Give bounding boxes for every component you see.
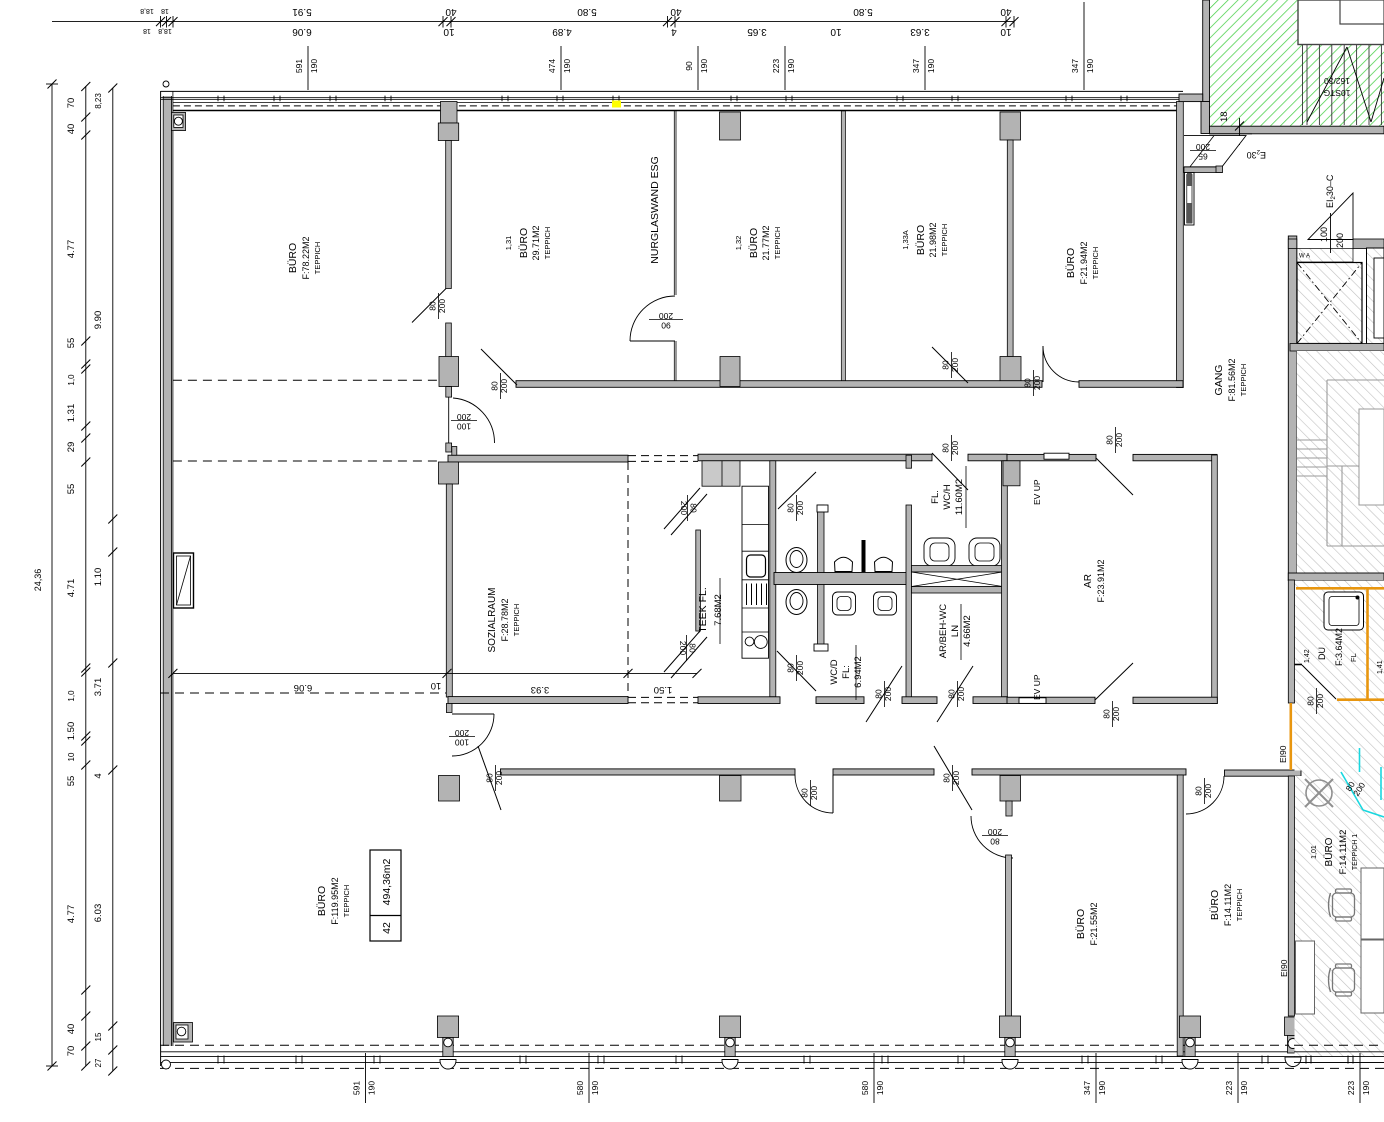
- svg-text:1,32: 1,32: [734, 236, 743, 251]
- svg-text:TEPPICH: TEPPICH: [773, 227, 782, 260]
- middle block top wall right segment: [968, 454, 1007, 461]
- sozial room door stub: [446, 704, 452, 713]
- door dim 80/200 room 21.94: [1023, 370, 1043, 396]
- svg-text:80: 80: [689, 503, 699, 513]
- svg-text:1.50: 1.50: [66, 722, 77, 741]
- dashed line corridor lower: [173, 460, 438, 462]
- svg-text:190: 190: [1097, 1081, 1107, 1095]
- sozialraum bottom wall: [448, 697, 628, 704]
- svg-text:EI90: EI90: [1278, 745, 1288, 763]
- ar door top leaf: [1096, 458, 1133, 495]
- svg-text:10: 10: [67, 752, 76, 761]
- svg-text:347: 347: [911, 59, 921, 73]
- right wall of BURO21.94: [1177, 102, 1184, 388]
- kitchen burners: [745, 636, 767, 649]
- svg-text:190: 190: [786, 59, 796, 73]
- corridor top wall segment 1: [516, 381, 1042, 388]
- du orange wall right: [1366, 588, 1369, 699]
- stair treads green: [1303, 0, 1382, 125]
- svg-text:10: 10: [431, 680, 442, 691]
- svg-text:BÜRO: BÜRO: [1209, 890, 1221, 920]
- svg-text:24,36: 24,36: [33, 569, 43, 592]
- svg-text:BÜRO: BÜRO: [915, 225, 927, 255]
- svg-text:W A: W A: [1299, 254, 1310, 260]
- svg-text:29: 29: [66, 442, 77, 453]
- svg-text:FL:: FL:: [841, 665, 852, 679]
- ev panel slot bottom: [1019, 698, 1046, 704]
- origin circle top-left: [163, 81, 169, 87]
- core top wall left: [1288, 239, 1297, 249]
- crossed-out circle symbol: [1305, 779, 1333, 807]
- svg-text:1.50: 1.50: [654, 684, 673, 695]
- svg-text:190: 190: [1361, 1081, 1371, 1095]
- svg-text:223: 223: [1224, 1081, 1234, 1095]
- label BURO 1,32: [734, 225, 782, 260]
- svg-text:80: 80: [1023, 378, 1033, 388]
- teek underline: [719, 578, 721, 644]
- fire door dim 200/65: [1190, 142, 1216, 162]
- du door dim: [1306, 688, 1326, 714]
- svg-text:15: 15: [94, 1032, 103, 1041]
- label NURGLASWAND: [649, 156, 661, 264]
- svg-text:3.93: 3.93: [531, 684, 550, 695]
- svg-text:80: 80: [688, 643, 698, 653]
- left dim chain A: [33, 80, 58, 1071]
- column C2 on top wall x730: [720, 112, 741, 140]
- bottom band overlay right: [1294, 1045, 1384, 1063]
- wc stall wall cap top: [817, 505, 828, 512]
- svg-text:TEEK FL.: TEEK FL.: [697, 587, 709, 633]
- svg-text:6.03: 6.03: [93, 904, 104, 923]
- ar east wall: [1212, 455, 1218, 704]
- svg-text:90: 90: [661, 321, 671, 331]
- svg-text:80: 80: [786, 663, 796, 673]
- label BURO 14.11 left: [1209, 884, 1244, 926]
- svg-text:190: 190: [926, 59, 936, 73]
- wc lower door dim: [786, 655, 806, 681]
- du door leaf: [1302, 665, 1336, 699]
- svg-text:4: 4: [93, 773, 104, 778]
- svg-text:9.90: 9.90: [93, 311, 104, 330]
- svg-text:5.80: 5.80: [577, 6, 597, 17]
- svg-text:190: 190: [562, 59, 572, 73]
- stair landing boxes green: [1298, 0, 1384, 45]
- sozial door column: [439, 776, 460, 802]
- column sozialraum corner: [439, 462, 459, 484]
- wc upper door leaf: [778, 472, 816, 509]
- svg-text:3.63: 3.63: [910, 26, 930, 37]
- svg-text:18: 18: [1219, 111, 1230, 122]
- door leaf corridor room 1,33A: [932, 347, 968, 383]
- urinal 1: [835, 557, 853, 571]
- bottom window dim labels: [352, 1053, 1372, 1103]
- column C4b corridor x730: [720, 357, 740, 387]
- bottom column x730: [719, 1016, 740, 1069]
- bottom column x1190: [1179, 1016, 1200, 1069]
- cyan annotation: [1341, 748, 1384, 817]
- wc east wall: [906, 505, 912, 697]
- wcd exit door leaf: [866, 666, 902, 722]
- svg-text:40: 40: [1000, 6, 1012, 17]
- du west wall orange segment: [1290, 703, 1293, 770]
- svg-text:10: 10: [443, 26, 455, 37]
- svg-text:494,36m2: 494,36m2: [381, 858, 393, 905]
- svg-text:11.60M2: 11.60M2: [954, 479, 965, 515]
- sozialraum dashed east boundary: [627, 462, 629, 697]
- svg-text:80: 80: [942, 773, 952, 783]
- interior dim line: [168, 669, 701, 695]
- svg-text:3.65: 3.65: [747, 26, 767, 37]
- door dim buro1411: [1194, 778, 1214, 804]
- svg-text:223: 223: [1346, 1081, 1356, 1095]
- bottom block top wall seg2: [833, 769, 934, 775]
- ar bottom wall seg1: [1007, 697, 1095, 703]
- urinal 2: [875, 557, 893, 571]
- stair run diagonals green: [1307, 47, 1384, 122]
- wc divider wall: [774, 573, 908, 585]
- svg-text:190: 190: [699, 59, 709, 73]
- teek cabinet divider: [721, 461, 723, 486]
- svg-text:200: 200: [1335, 233, 1345, 248]
- svg-text:1,0: 1,0: [67, 690, 76, 702]
- wc stall wall cap bottom: [814, 644, 828, 651]
- svg-text:WC/H: WC/H: [942, 484, 953, 509]
- wch underline: [965, 466, 967, 528]
- svg-text:580: 580: [575, 1081, 585, 1095]
- svg-text:65: 65: [1198, 152, 1208, 162]
- svg-text:190: 190: [309, 59, 319, 73]
- wc upper door dim: [786, 495, 806, 521]
- svg-text:AR: AR: [1083, 574, 1094, 588]
- svg-text:80: 80: [874, 689, 884, 699]
- svg-text:TEPPICH: TEPPICH: [1091, 247, 1100, 280]
- svg-text:80: 80: [1194, 786, 1204, 796]
- door arc buro119 east: [795, 775, 833, 813]
- sozial room door arc: [452, 714, 494, 756]
- sozialraum dashed bottom wall: [628, 697, 698, 702]
- arbeh exit door leaf: [937, 666, 973, 722]
- svg-text:347: 347: [1082, 1081, 1092, 1095]
- svg-text:70: 70: [66, 98, 77, 109]
- yellow highlight mark: [612, 101, 621, 108]
- kitchen counter dividers: [742, 525, 769, 632]
- svg-text:GANG: GANG: [1213, 365, 1225, 396]
- du labels: [1304, 628, 1384, 674]
- svg-text:80: 80: [490, 381, 500, 391]
- middle bottom wall seg4: [973, 697, 1008, 704]
- svg-text:BÜRO: BÜRO: [1323, 837, 1335, 866]
- svg-text:1,0: 1,0: [67, 374, 76, 386]
- secondary shaft right: [1367, 248, 1384, 348]
- sink 2: [874, 592, 897, 615]
- door arc room 21.94: [1043, 346, 1079, 382]
- door arc buro1411: [1186, 776, 1224, 814]
- svg-text:WC/D: WC/D: [829, 659, 840, 684]
- label ARBEH: [938, 604, 973, 659]
- door dim 80/200 corridor west: [490, 373, 510, 399]
- wall between BURO1,32 and BURO1,33A: [841, 111, 845, 383]
- svg-text:55: 55: [66, 484, 77, 495]
- svg-text:BÜRO: BÜRO: [316, 886, 328, 916]
- svg-text:F:3.64M2: F:3.64M2: [1334, 628, 1344, 666]
- corridor top wall segment 2: [1079, 381, 1183, 388]
- green area bottom wall: [1210, 126, 1384, 134]
- svg-text:40: 40: [445, 6, 457, 17]
- ar bottom wall seg2: [1133, 697, 1217, 703]
- top dim labels lower row: [143, 26, 1012, 37]
- sozialraum dashed top wall: [628, 456, 698, 462]
- left exterior wall outer line: [160, 91, 162, 1066]
- svg-text:8,23: 8,23: [94, 93, 103, 109]
- core door threshold hatch: [1297, 249, 1353, 263]
- desk left: [1296, 941, 1315, 1014]
- column C3b lower x1012: [1000, 357, 1021, 384]
- core west wall: [1288, 236, 1297, 580]
- svg-text:F:21.55M2: F:21.55M2: [1089, 902, 1099, 945]
- shower tray: [1324, 592, 1364, 630]
- svg-text:1,42: 1,42: [1304, 649, 1311, 663]
- label BURO 78.22: [287, 236, 322, 279]
- ar door bottom leaf: [1095, 663, 1133, 700]
- teek cabinets: [702, 461, 740, 486]
- wall between BURO78 and BURO1,31 lower stub: [446, 323, 452, 357]
- office chair 2: [1329, 964, 1355, 996]
- bottom west door leaf: [478, 746, 501, 810]
- svg-text:29.71M2: 29.71M2: [531, 225, 541, 260]
- svg-text:1,31: 1,31: [504, 236, 513, 251]
- svg-text:591: 591: [352, 1081, 362, 1095]
- svg-text:40: 40: [66, 124, 77, 135]
- svg-text:190: 190: [875, 1081, 885, 1095]
- svg-text:3.71: 3.71: [93, 678, 104, 697]
- svg-text:NURGLASWAND ESG: NURGLASWAND ESG: [649, 156, 661, 264]
- middle block east wall: [1002, 461, 1008, 697]
- teek left wall stub: [696, 530, 701, 631]
- svg-text:4.66M2: 4.66M2: [962, 615, 973, 647]
- door dim 80/200 room1,31: [428, 293, 448, 319]
- band below elevator: [1290, 344, 1384, 352]
- du orange wall bottom: [1337, 698, 1384, 701]
- wall element on left exterior (shaft): [174, 553, 194, 608]
- elevator shaft X: [1297, 263, 1362, 344]
- dim 18 with tick: [1210, 111, 1253, 145]
- svg-text:TEPPICH: TEPPICH: [313, 242, 322, 275]
- svg-text:1,41: 1,41: [1377, 660, 1384, 674]
- svg-text:100: 100: [1319, 227, 1329, 242]
- bottom column x1293: [1285, 1017, 1303, 1067]
- label BURO 1,31: [504, 225, 552, 260]
- svg-text:190: 190: [590, 1081, 600, 1095]
- arbeh exit door dim: [947, 681, 967, 707]
- svg-text:1.31: 1.31: [66, 404, 77, 423]
- label BURO 14.11 right hatch: [1311, 830, 1359, 875]
- sozialraum left wall: [446, 484, 452, 697]
- svg-text:BÜRO: BÜRO: [1065, 248, 1077, 278]
- left dim chain B: [66, 82, 90, 1071]
- top band mullion ticks: [218, 96, 1127, 102]
- svg-text:DU: DU: [1317, 647, 1327, 660]
- svg-text:TEPPICH: TEPPICH: [543, 227, 552, 260]
- label BURO 119.95: [316, 877, 351, 924]
- svg-text:223: 223: [771, 59, 781, 73]
- wcd underline: [855, 645, 857, 700]
- door dim buro2155 side: [982, 827, 1008, 847]
- kitchen sink: [747, 555, 766, 577]
- label BURO 21.94: [1065, 241, 1100, 284]
- svg-text:55: 55: [66, 776, 77, 787]
- svg-text:10STG: 10STG: [1324, 88, 1351, 98]
- door dim buro119 east: [800, 780, 820, 806]
- top window dim labels 591/190 etc: [294, 2, 1095, 90]
- svg-text:190: 190: [367, 1081, 377, 1095]
- svg-text:80: 80: [941, 360, 951, 370]
- desk right lower: [1361, 940, 1384, 1013]
- wall between BURO78 and BURO1,31 upper: [446, 141, 452, 289]
- svg-text:190: 190: [1085, 59, 1095, 73]
- glass door arc NURGLASWAND: [630, 296, 675, 341]
- ar top wall seg2: [1133, 454, 1217, 460]
- door leaf buro2155 top: [934, 746, 972, 810]
- svg-text:F:14.11M2: F:14.11M2: [1223, 884, 1233, 926]
- bottom band lines: [160, 1052, 1384, 1069]
- teek opening dim north: [679, 495, 699, 521]
- svg-text:80: 80: [941, 443, 951, 453]
- svg-text:40: 40: [670, 6, 682, 17]
- svg-text:55: 55: [66, 338, 77, 349]
- ar door top dim: [1105, 427, 1125, 453]
- cyan text 80/200: [1344, 775, 1368, 797]
- ar door bottom dim: [1102, 701, 1122, 727]
- svg-text:4.77: 4.77: [66, 240, 77, 259]
- svg-text:100: 100: [455, 738, 469, 748]
- bottom-left corner circle: [162, 1060, 171, 1069]
- wcd exit door dim: [874, 681, 894, 707]
- left exterior wall inner lines: [163, 91, 173, 1046]
- teek opening dim south: [678, 635, 698, 661]
- stair flight hatch: [1297, 351, 1384, 573]
- ar top wall seg1: [1007, 454, 1096, 460]
- teek opening symbol north: [664, 488, 707, 535]
- svg-text:591: 591: [294, 59, 304, 73]
- svg-text:4.77: 4.77: [66, 905, 77, 924]
- pilaster below fire door: [1185, 173, 1195, 226]
- green stair area: [1210, 0, 1384, 126]
- svg-text:LN: LN: [950, 625, 961, 637]
- svg-text:1,33A: 1,33A: [901, 230, 910, 250]
- svg-text:80: 80: [1105, 435, 1115, 445]
- svg-text:7.68M2: 7.68M2: [713, 594, 724, 626]
- svg-text:4: 4: [671, 26, 677, 37]
- bottom-left corner anchor: [174, 1023, 193, 1043]
- svg-text:F:28.78M2: F:28.78M2: [500, 598, 510, 641]
- wall between buro2155 and buro1411: [1177, 775, 1183, 1056]
- ev panel slot top: [1044, 453, 1069, 459]
- svg-text:190: 190: [1239, 1081, 1249, 1095]
- door dim 90/200 glass door: [649, 311, 683, 331]
- svg-text:FL: FL: [1349, 653, 1358, 662]
- column C5 x1010: [1000, 776, 1021, 802]
- label BURO 21.55: [1075, 902, 1099, 945]
- svg-text:80: 80: [800, 788, 810, 798]
- toilet 2: [786, 590, 807, 615]
- wch door leaf: [932, 453, 968, 490]
- svg-text:TEPPICH: TEPPICH: [342, 885, 351, 918]
- label GANG: [1213, 358, 1248, 401]
- green corner leg: [1201, 102, 1210, 134]
- svg-text:6.94M2: 6.94M2: [853, 656, 864, 688]
- door stem x1010: [1006, 801, 1012, 816]
- svg-text:6.06: 6.06: [292, 26, 312, 37]
- kitchen counter: [742, 486, 769, 658]
- teek east wall: [770, 461, 776, 697]
- stair treads lower: [1297, 440, 1327, 476]
- top exterior window band: [161, 91, 1183, 110]
- wch door dim: [941, 435, 961, 461]
- label BURO 1,33A: [901, 222, 949, 257]
- svg-text:F:78.22M2: F:78.22M2: [301, 236, 311, 279]
- wch sink 1: [924, 538, 955, 566]
- svg-text:BÜRO: BÜRO: [1075, 909, 1087, 939]
- sozial door dim 100/200: [449, 728, 475, 748]
- svg-text:BÜRO: BÜRO: [287, 243, 299, 273]
- svg-text:80: 80: [947, 689, 957, 699]
- sink 1: [833, 592, 856, 615]
- bottom block top wall seg1: [501, 769, 796, 775]
- core top wall right: [1353, 239, 1384, 249]
- arrow triangle: [1308, 193, 1353, 240]
- svg-text:EI90: EI90: [1279, 959, 1289, 977]
- svg-text:70: 70: [66, 1046, 77, 1057]
- wall between buro2155w: [1006, 855, 1012, 1016]
- dashed line corridor upper: [173, 379, 438, 381]
- middle bottom wall seg1: [698, 697, 780, 704]
- svg-text:42: 42: [381, 922, 393, 934]
- fire door E2-30 parallelogram: [1184, 136, 1246, 167]
- fire door threshold step: [1216, 166, 1223, 173]
- svg-text:BÜRO: BÜRO: [518, 228, 530, 258]
- dashed line below interior dim: [160, 692, 446, 694]
- teek opening symbol south: [664, 631, 707, 678]
- svg-text:F:119.95M2: F:119.95M2: [330, 877, 340, 924]
- svg-text:80: 80: [1306, 696, 1316, 706]
- column C3 on top wall x1012: [1000, 112, 1021, 140]
- area tag box 42 494: [370, 850, 401, 941]
- shaft box with X: [912, 566, 1003, 594]
- arbeh underline: [960, 604, 962, 660]
- svg-text:474: 474: [547, 59, 557, 73]
- svg-text:80: 80: [786, 503, 796, 513]
- svg-text:10: 10: [830, 26, 842, 37]
- svg-text:1.10: 1.10: [93, 568, 104, 587]
- svg-text:BÜRO: BÜRO: [748, 228, 760, 258]
- fire door threshold: [1184, 167, 1222, 173]
- svg-text:5.91: 5.91: [292, 6, 312, 17]
- svg-text:5.80: 5.80: [853, 6, 873, 17]
- dim 100/200 stairs: [1319, 213, 1345, 253]
- stair flight lines: [1327, 380, 1384, 546]
- green area left wall: [1203, 0, 1210, 102]
- svg-text:TEPPICH: TEPPICH: [940, 224, 949, 257]
- du orange wall top: [1296, 587, 1384, 590]
- sozialraum top wall: [448, 455, 628, 462]
- sozialraum top wall stub: [452, 447, 457, 456]
- svg-text:18,8: 18,8: [158, 27, 172, 34]
- label WCD: [829, 656, 864, 688]
- middle bottom wall seg3: [902, 697, 937, 704]
- door arc buro2155 side: [971, 816, 1013, 858]
- desk right upper: [1361, 868, 1384, 939]
- svg-text:10: 10: [1000, 26, 1012, 37]
